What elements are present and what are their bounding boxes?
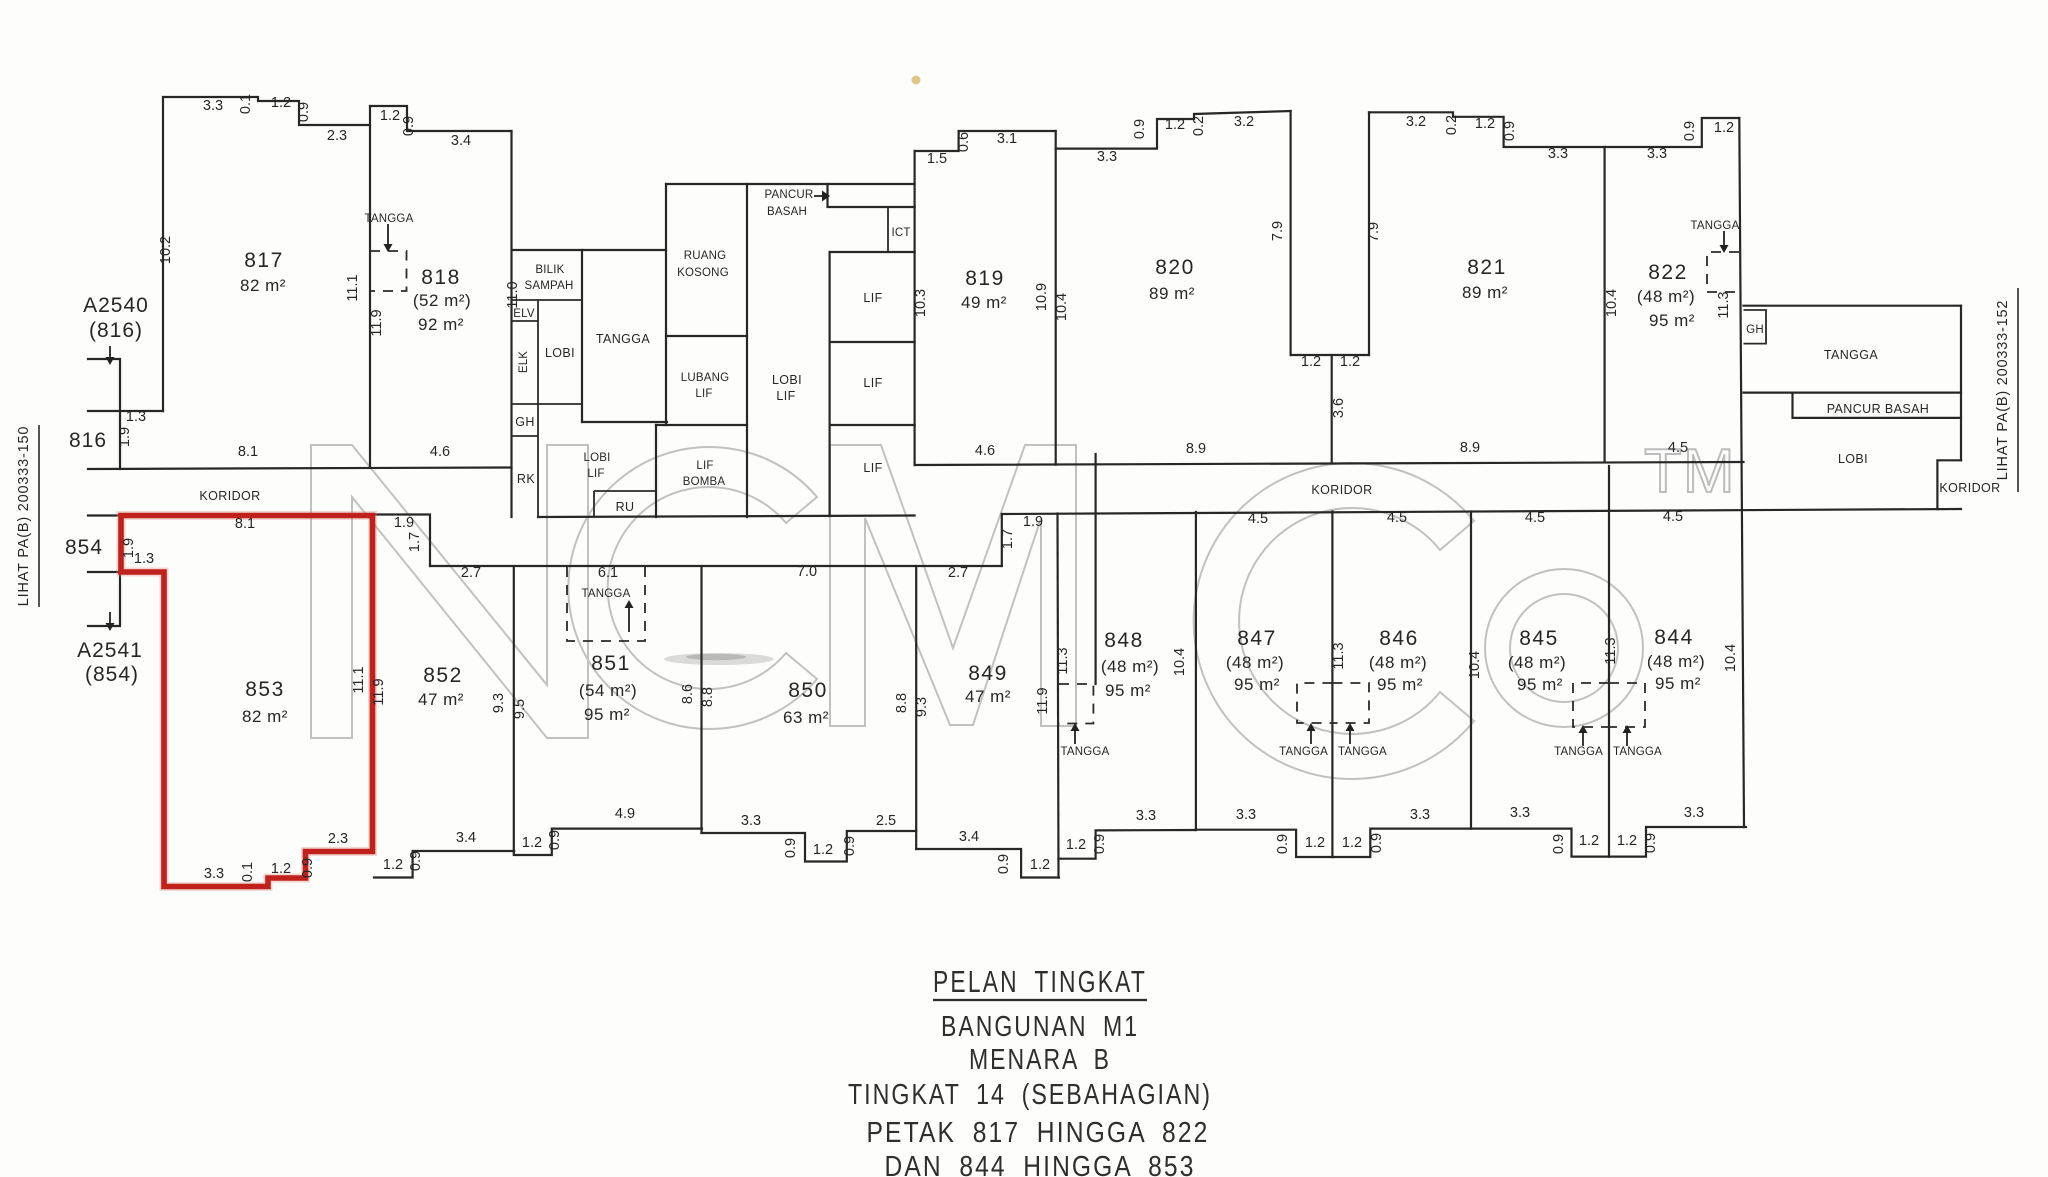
svg-text:850: 850 [788, 679, 828, 702]
svg-text:4.6: 4.6 [975, 443, 995, 459]
ELV bottom [512, 320, 538, 322]
svg-text:0.9: 0.9 [1502, 121, 1518, 141]
unit 819 top wall [915, 131, 1056, 151]
arrow tangga 846 [1346, 723, 1355, 744]
unit 820 right wall [1289, 111, 1291, 355]
svg-text:0.9: 0.9 [996, 854, 1012, 874]
arrow tangga 844 [1623, 725, 1632, 746]
svg-text:1.2: 1.2 [1617, 833, 1637, 849]
svg-text:11.9: 11.9 [369, 309, 385, 336]
svg-text:0.9: 0.9 [300, 858, 316, 878]
watermark letter C [568, 447, 817, 729]
arrow A2541 [106, 612, 115, 631]
watermark letter M [830, 445, 1076, 726]
svg-text:846: 846 [1379, 627, 1419, 650]
core vertical x747 [746, 184, 748, 517]
svg-text:RUANG: RUANG [684, 250, 727, 262]
unit 818 top wall [370, 106, 512, 131]
svg-text:4.5: 4.5 [1387, 510, 1407, 526]
corridor top line right [915, 462, 1744, 465]
svg-text:KORIDOR: KORIDOR [199, 489, 260, 503]
unit 821 left wall [1368, 112, 1370, 355]
svg-text:4.6: 4.6 [430, 444, 450, 460]
corridor step x1002 [1001, 514, 1003, 566]
svg-text:MENARA B: MENARA B [969, 1044, 1111, 1076]
svg-text:TANGGA: TANGGA [365, 213, 414, 225]
svg-text:0.2: 0.2 [1191, 116, 1207, 136]
arrow A2540 [106, 346, 115, 365]
wall divider 848/847 [1195, 512, 1197, 830]
corridor bottom line right [1002, 509, 1961, 514]
wall divider 849/848 [1058, 514, 1059, 878]
svg-text:8.8: 8.8 [894, 693, 910, 713]
svg-text:95 m²: 95 m² [1649, 311, 1695, 330]
title block [848, 964, 1212, 1177]
svg-text:SAMPAH: SAMPAH [525, 280, 574, 292]
svg-text:0.9: 0.9 [1643, 833, 1659, 853]
svg-text:821: 821 [1467, 256, 1507, 279]
svg-text:853: 853 [245, 678, 285, 701]
svg-text:LUBANG: LUBANG [681, 372, 730, 384]
svg-text:3.3: 3.3 [1647, 146, 1667, 162]
wall divider 847/846 [1331, 512, 1333, 858]
unit 817 outer wall [163, 97, 370, 411]
svg-text:3.2: 3.2 [1234, 114, 1254, 130]
GH bottom [512, 435, 538, 437]
core top wall y250 [512, 249, 666, 251]
gray smudge [664, 653, 774, 665]
watermark letter N [311, 445, 588, 738]
svg-text:LOBI: LOBI [1838, 452, 1868, 466]
svg-text:LIF: LIF [863, 291, 882, 305]
wall divider 821/822 [1603, 147, 1605, 462]
svg-text:7.0: 7.0 [797, 564, 817, 580]
svg-text:TANGGA: TANGGA [1279, 746, 1328, 758]
svg-text:TANGGA: TANGGA [582, 588, 631, 600]
svg-text:4.5: 4.5 [1668, 440, 1688, 456]
core bottom line [538, 516, 915, 518]
svg-text:3.3: 3.3 [741, 813, 761, 829]
svg-text:0.9: 0.9 [408, 851, 424, 871]
arrow pancur basah [814, 191, 830, 202]
unit 822 top wall [1605, 118, 1740, 147]
sheet reference left [16, 425, 39, 607]
svg-text:3.4: 3.4 [456, 830, 476, 846]
svg-text:0.9: 0.9 [401, 116, 417, 136]
svg-text:8.9: 8.9 [1460, 440, 1480, 456]
svg-text:BASAH: BASAH [767, 206, 807, 218]
divider 820/821 lower [1331, 355, 1333, 462]
svg-text:8.1: 8.1 [235, 516, 255, 532]
arrow tangga 847 [1307, 723, 1316, 744]
svg-text:1.2: 1.2 [271, 95, 291, 111]
svg-text:852: 852 [423, 664, 463, 687]
svg-text:820: 820 [1155, 256, 1195, 279]
svg-text:PETAK 817 HINGGA 822: PETAK 817 HINGGA 822 [867, 1117, 1210, 1149]
svg-text:(48 m²): (48 m²) [1369, 653, 1427, 672]
svg-text:0.9: 0.9 [783, 838, 799, 858]
right lobby step [1937, 460, 1961, 509]
svg-text:3.3: 3.3 [1548, 146, 1568, 162]
svg-text:1.5: 1.5 [927, 151, 947, 167]
unit 844 bottom wall [1609, 827, 1746, 857]
svg-text:8.8: 8.8 [700, 687, 716, 707]
bilik sampah bottom [512, 299, 582, 301]
svg-text:TANGGA: TANGGA [1338, 746, 1387, 758]
svg-text:1.2: 1.2 [1340, 354, 1360, 370]
svg-text:1.2: 1.2 [813, 842, 833, 858]
svg-text:A2541: A2541 [77, 639, 143, 662]
svg-text:2.3: 2.3 [328, 831, 348, 847]
svg-text:TINGKAT 14 (SEBAHAGIAN): TINGKAT 14 (SEBAHAGIAN) [848, 1079, 1212, 1111]
svg-text:(52 m²): (52 m²) [413, 291, 471, 310]
unit 853 red boundary [121, 516, 373, 887]
svg-text:LIHAT PA(B) 200333-150: LIHAT PA(B) 200333-150 [16, 426, 32, 606]
stair dashed box 818 [370, 251, 407, 291]
wall divider 845/844 [1608, 466, 1610, 857]
RU box [594, 491, 656, 517]
unit 848 bottom wall [1059, 830, 1196, 859]
lobi bottom y404 [512, 403, 582, 405]
svg-text:0.9: 0.9 [1132, 119, 1148, 139]
svg-text:851: 851 [591, 652, 631, 675]
units 822/844 right wall [1739, 118, 1744, 827]
svg-text:0.6: 0.6 [956, 132, 972, 152]
svg-text:3.4: 3.4 [959, 829, 979, 845]
svg-text:11.1: 11.1 [345, 274, 361, 301]
unit 854 boundary notch [88, 516, 121, 627]
svg-text:4.9: 4.9 [615, 806, 635, 822]
svg-text:LOBI: LOBI [545, 346, 575, 360]
lif divider 1 [830, 341, 915, 343]
svg-text:95 m²: 95 m² [1655, 674, 1701, 693]
svg-text:847: 847 [1237, 627, 1277, 650]
svg-text:1.2: 1.2 [1342, 835, 1362, 851]
arrow tangga 848 [1071, 723, 1080, 744]
unit 820 top wall [1056, 111, 1291, 149]
svg-text:1.2: 1.2 [522, 835, 542, 851]
svg-text:RU: RU [616, 500, 635, 514]
svg-text:3.6: 3.6 [1331, 398, 1347, 418]
svg-text:10.4: 10.4 [1604, 289, 1620, 317]
svg-text:TANGGA: TANGGA [596, 332, 651, 346]
svg-text:854: 854 [65, 536, 103, 559]
svg-text:LIHAT PA(B) 200333-152: LIHAT PA(B) 200333-152 [1995, 300, 2011, 480]
svg-text:82 m²: 82 m² [242, 707, 288, 726]
svg-text:10.3: 10.3 [913, 289, 929, 317]
svg-text:3.3: 3.3 [1097, 149, 1117, 165]
svg-text:95 m²: 95 m² [1234, 675, 1280, 694]
watermark TM [1644, 437, 1736, 506]
svg-text:A2540: A2540 [83, 294, 149, 317]
svg-text:10.2: 10.2 [158, 236, 174, 264]
lif stack top [830, 251, 915, 253]
tangga room bottom [582, 421, 667, 423]
svg-text:47 m²: 47 m² [418, 690, 464, 709]
svg-text:LIF: LIF [863, 461, 882, 475]
ICT left wall [887, 207, 889, 252]
stair dashed box 822 [1707, 252, 1739, 292]
svg-text:8.6: 8.6 [680, 684, 696, 704]
svg-text:3.3: 3.3 [1684, 805, 1704, 821]
svg-text:63 m²: 63 m² [783, 708, 829, 727]
lif divider 2 [830, 424, 915, 426]
svg-text:4.5: 4.5 [1248, 511, 1268, 527]
svg-text:0.2: 0.2 [1444, 115, 1460, 135]
svg-text:LIF: LIF [863, 376, 882, 390]
svg-text:(48 m²): (48 m²) [1508, 653, 1566, 672]
stair dashed box 844 [1609, 683, 1645, 727]
svg-text:10.4: 10.4 [1054, 293, 1070, 321]
right core top [1744, 305, 1962, 307]
svg-text:3.3: 3.3 [204, 866, 224, 882]
svg-text:3.2: 3.2 [1406, 114, 1426, 130]
svg-text:PANCUR: PANCUR [765, 189, 814, 201]
ruang kosong bottom [666, 335, 747, 337]
svg-text:1.9: 1.9 [117, 427, 133, 447]
svg-text:4.5: 4.5 [1525, 510, 1545, 526]
svg-text:82 m²: 82 m² [240, 276, 286, 295]
svg-text:2.7: 2.7 [461, 565, 481, 581]
svg-text:95 m²: 95 m² [1105, 681, 1151, 700]
svg-text:849: 849 [968, 662, 1008, 685]
svg-text:(48 m²): (48 m²) [1647, 652, 1705, 671]
unit 850 bottom wall [702, 831, 917, 862]
unit 851 bottom wall [514, 829, 702, 855]
svg-text:3.4: 3.4 [451, 133, 471, 149]
svg-text:8.1: 8.1 [238, 444, 258, 460]
stair dashed box 847 [1297, 683, 1332, 723]
svg-text:1.2: 1.2 [1165, 117, 1185, 133]
wall divider 819/820 [1055, 131, 1057, 465]
svg-text:844: 844 [1654, 626, 1694, 649]
unit 818 right wall / core left [510, 131, 512, 517]
stair dashed box 851 [567, 567, 645, 641]
svg-text:BOMBA: BOMBA [683, 476, 726, 488]
stair dashed box 845 [1573, 683, 1609, 727]
unit 847 bottom wall [1196, 830, 1333, 857]
wall divider 817/818 [369, 106, 371, 468]
svg-text:TANGGA: TANGGA [1691, 220, 1740, 232]
svg-text:11.9: 11.9 [1035, 687, 1051, 714]
right core right wall [1960, 306, 1962, 461]
svg-text:BILIK: BILIK [535, 264, 564, 276]
right pancur basah box [1793, 393, 1962, 418]
svg-text:95 m²: 95 m² [1517, 675, 1563, 694]
svg-text:11.1: 11.1 [351, 666, 367, 693]
unit 816 boundary notch [88, 359, 163, 469]
svg-text:9.5: 9.5 [512, 699, 528, 719]
yellow scan dot [912, 76, 921, 85]
wall divider 850/849 [915, 566, 917, 849]
wall divider 852/851 [513, 567, 515, 852]
unit 845 bottom wall [1471, 829, 1609, 857]
svg-text:PELAN TINGKAT: PELAN TINGKAT [933, 964, 1147, 999]
svg-text:TANGGA: TANGGA [1061, 746, 1110, 758]
svg-text:3.3: 3.3 [1410, 807, 1430, 823]
arrow tangga 822 [1720, 231, 1729, 253]
watermark letter o [1485, 569, 1643, 727]
svg-text:1.2: 1.2 [1030, 857, 1050, 873]
svg-text:LOBI: LOBI [583, 452, 610, 464]
lower lobby right x656 [655, 425, 657, 517]
svg-text:0.9: 0.9 [842, 836, 858, 856]
svg-text:3.3: 3.3 [1510, 805, 1530, 821]
svg-text:11.0: 11.0 [505, 281, 521, 308]
svg-text:ICT: ICT [891, 227, 910, 239]
svg-text:848: 848 [1104, 629, 1144, 652]
svg-text:TANGGA: TANGGA [1554, 746, 1603, 758]
wall 848 upper left [1094, 454, 1096, 684]
svg-text:1.2: 1.2 [383, 857, 403, 873]
svg-text:(54 m²): (54 m²) [579, 681, 637, 700]
wall divider 846/845 [1470, 512, 1472, 829]
svg-text:2.5: 2.5 [876, 813, 896, 829]
svg-text:TM: TM [1644, 437, 1736, 506]
svg-text:3.1: 3.1 [997, 131, 1017, 147]
svg-text:(48 m²): (48 m²) [1226, 653, 1284, 672]
svg-text:2.7: 2.7 [948, 565, 968, 581]
svg-text:0.9: 0.9 [296, 102, 312, 122]
svg-text:8.9: 8.9 [1186, 441, 1206, 457]
820/821 jog [1291, 354, 1369, 356]
svg-text:LIF: LIF [776, 389, 795, 403]
corridor bottom line y566 [430, 565, 1002, 567]
wall divider 851/850 [700, 567, 702, 834]
svg-text:LIF: LIF [587, 468, 604, 480]
svg-text:0.9: 0.9 [1369, 833, 1385, 853]
svg-text:1.7: 1.7 [407, 532, 423, 552]
svg-text:ELV: ELV [513, 308, 535, 320]
svg-text:2.3: 2.3 [327, 128, 347, 144]
svg-text:GH: GH [1746, 324, 1764, 336]
svg-text:0.9: 0.9 [1092, 834, 1108, 854]
svg-text:1.9: 1.9 [394, 515, 414, 531]
right core GH box [1744, 310, 1767, 344]
arrow tangga 845 [1579, 725, 1588, 746]
svg-text:10.9: 10.9 [1034, 283, 1050, 311]
svg-text:89 m²: 89 m² [1149, 284, 1195, 303]
svg-text:3.3: 3.3 [203, 98, 223, 114]
svg-text:89 m²: 89 m² [1462, 283, 1508, 302]
svg-text:4.5: 4.5 [1663, 509, 1683, 525]
svg-text:3.3: 3.3 [1236, 807, 1256, 823]
unit 846 bottom wall [1332, 829, 1471, 857]
core top wall y184 [666, 183, 915, 185]
svg-text:(854): (854) [85, 663, 139, 686]
svg-text:822: 822 [1648, 261, 1688, 284]
svg-text:TANGGA: TANGGA [1824, 348, 1879, 362]
svg-text:95 m²: 95 m² [584, 705, 630, 724]
svg-text:1.2: 1.2 [1066, 837, 1086, 853]
stair dashed box 846 [1332, 683, 1369, 723]
svg-text:1.9: 1.9 [1023, 514, 1043, 530]
svg-text:BANGUNAN M1: BANGUNAN M1 [941, 1011, 1139, 1043]
svg-text:10.4: 10.4 [1172, 648, 1188, 676]
svg-text:(48 m²): (48 m²) [1101, 657, 1159, 676]
svg-text:819: 819 [965, 267, 1005, 290]
svg-text:47 m²: 47 m² [965, 687, 1011, 706]
svg-text:9.3: 9.3 [914, 697, 930, 717]
svg-text:9.3: 9.3 [491, 693, 507, 713]
unit 849 bottom wall [916, 849, 1059, 878]
svg-text:1.3: 1.3 [134, 551, 154, 567]
lif stack left [828, 252, 830, 516]
svg-text:6.1: 6.1 [598, 565, 618, 581]
stair dashed box 848 [1059, 684, 1093, 724]
svg-text:10.4: 10.4 [1467, 651, 1483, 679]
svg-text:845: 845 [1519, 627, 1559, 650]
svg-text:817: 817 [244, 249, 284, 272]
svg-text:0.1: 0.1 [240, 862, 256, 882]
svg-text:11.3: 11.3 [1331, 642, 1347, 669]
lubang lif bottom / lif bomba top [656, 424, 747, 426]
svg-text:818: 818 [421, 266, 461, 289]
svg-text:(48 m²): (48 m²) [1637, 287, 1695, 306]
svg-text:LIF: LIF [695, 388, 712, 400]
svg-text:1.3: 1.3 [126, 409, 146, 425]
unit 821 top wall [1369, 112, 1605, 147]
svg-text:PANCUR BASAH: PANCUR BASAH [1827, 402, 1930, 416]
svg-text:RK: RK [517, 472, 535, 486]
svg-text:KORIDOR: KORIDOR [1311, 483, 1372, 497]
svg-text:1.2: 1.2 [1714, 120, 1734, 136]
watermark letter C2 [1194, 463, 1474, 779]
core inner vertical x538 [537, 300, 539, 517]
svg-text:92 m²: 92 m² [418, 315, 464, 334]
svg-text:GH: GH [515, 415, 535, 429]
svg-text:10.4: 10.4 [1723, 644, 1739, 672]
svg-text:LIF: LIF [696, 460, 713, 472]
svg-text:49 m²: 49 m² [961, 293, 1007, 312]
unit 852 bottom wall [374, 851, 514, 878]
right tangga bottom [1744, 392, 1962, 394]
svg-text:3.3: 3.3 [1136, 808, 1156, 824]
svg-text:11.3: 11.3 [1603, 637, 1619, 664]
svg-text:(816): (816) [89, 319, 143, 342]
svg-text:1.7: 1.7 [1000, 529, 1016, 549]
svg-text:ELK: ELK [518, 351, 530, 373]
ruang kosong left x666 [665, 184, 667, 425]
svg-text:7.9: 7.9 [1366, 222, 1382, 242]
svg-text:95 m²: 95 m² [1377, 675, 1423, 694]
svg-text:TANGGA: TANGGA [1613, 746, 1662, 758]
svg-text:1.2: 1.2 [1579, 833, 1599, 849]
arrow tangga 818 [384, 224, 393, 252]
svg-text:KORIDOR: KORIDOR [1939, 481, 2000, 495]
svg-text:1.2: 1.2 [1475, 116, 1495, 132]
pancur basah slot [828, 184, 915, 207]
sheet reference right [1995, 288, 2018, 492]
svg-text:1.2: 1.2 [380, 108, 400, 124]
svg-text:1.2: 1.2 [271, 861, 291, 877]
svg-text:LOBI: LOBI [772, 373, 802, 387]
corridor step x430 [374, 515, 430, 567]
svg-text:11.3: 11.3 [1716, 291, 1732, 318]
svg-text:0.9: 0.9 [1551, 834, 1567, 854]
svg-text:1.2: 1.2 [1301, 354, 1321, 370]
svg-text:0.9: 0.9 [1682, 121, 1698, 141]
svg-text:7.9: 7.9 [1270, 221, 1286, 241]
svg-text:1.2: 1.2 [1305, 835, 1325, 851]
svg-text:11.9: 11.9 [371, 678, 387, 705]
svg-text:0.9: 0.9 [1275, 834, 1291, 854]
svg-text:11.3: 11.3 [1055, 647, 1071, 674]
tangga room left x582 [581, 250, 583, 422]
svg-text:0.1: 0.1 [238, 94, 254, 114]
corridor top line left [88, 468, 512, 470]
svg-text:KOSONG: KOSONG [677, 267, 729, 279]
